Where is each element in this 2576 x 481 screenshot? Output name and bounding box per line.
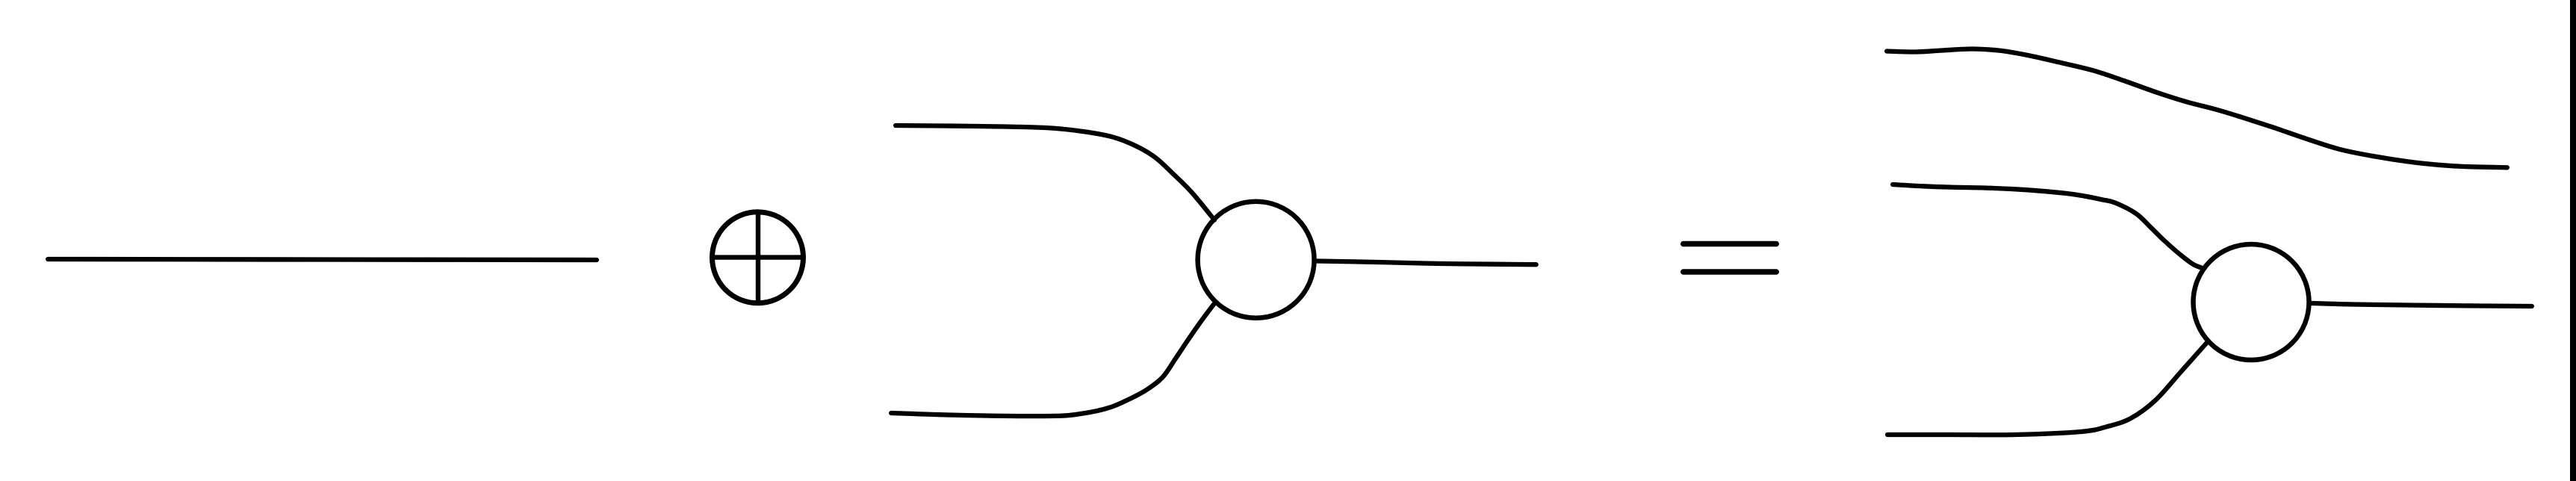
- wire: right diagram top (pass-through): [1887, 49, 2507, 168]
- wire: left diagram output: [1317, 261, 1536, 265]
- wire: right diagram output: [2312, 303, 2532, 306]
- direct-sum symbol : vertical bar: [756, 212, 760, 303]
- node: right diagram merge circle: [2194, 244, 2309, 360]
- equals sign top bar: [1683, 241, 1776, 247]
- wire: left identity wire: [48, 259, 597, 260]
- direct-sum symbol (circled plus) : circle: [713, 212, 804, 303]
- wire: left diagram bottom input: [891, 305, 1214, 417]
- node: left diagram merge circle: [1198, 202, 1315, 318]
- wire: left diagram top input: [896, 125, 1214, 220]
- direct-sum symbol : horizontal bar: [713, 255, 804, 259]
- equals sign bottom bar: [1683, 269, 1776, 275]
- frame: right edge black border: [2570, 0, 2576, 481]
- wire: right diagram middle input: [1893, 184, 2201, 268]
- wire: right diagram bottom input: [1887, 344, 2206, 435]
